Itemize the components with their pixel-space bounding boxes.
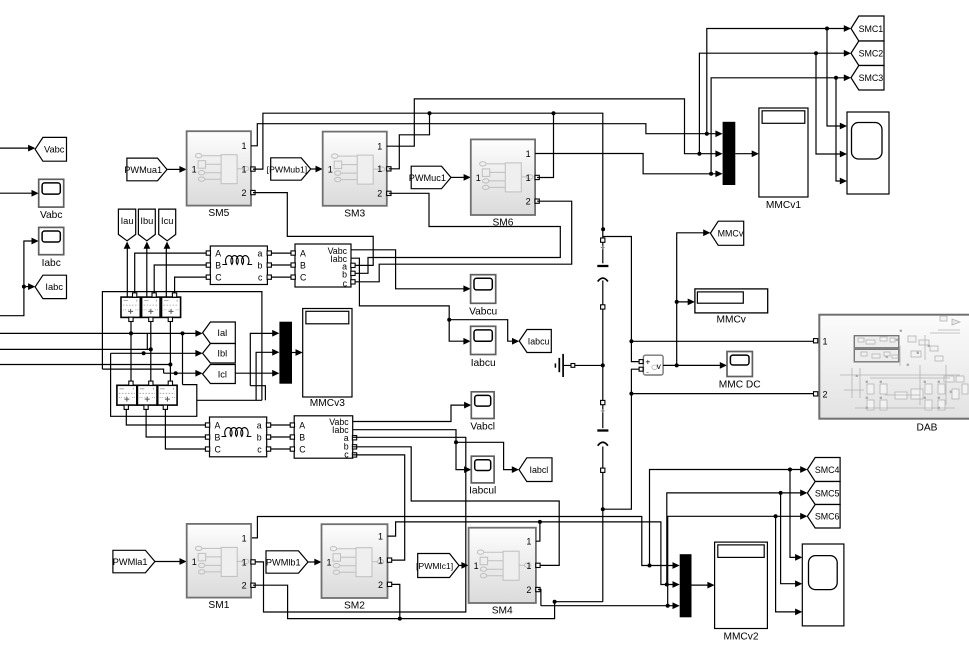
from tag PWMlc1 — [418, 554, 459, 578]
svg-text:2: 2 — [241, 188, 246, 198]
wire battery B measurement to Ibu tag — [146, 248, 148, 297]
scope MMCv3 — [303, 309, 352, 398]
svg-text:+: + — [645, 356, 650, 366]
wire branch to goto tag Iabcu — [449, 320, 513, 342]
svg-text:Ibl: Ibl — [217, 349, 227, 359]
wire VI b lower to SM4 mid port — [353, 447, 560, 566]
DAB internal circuitry (decorative) — [840, 316, 968, 410]
svg-text:MMCv2: MMCv2 — [723, 632, 758, 643]
wire tap to SMC2 — [699, 53, 844, 154]
junction bus bottom — [601, 507, 605, 511]
wire phase-c line to mux MMCv3 in3 — [235, 372, 273, 374]
wire SM1 out1 to mux MMCv2 in1 — [251, 517, 673, 566]
scope Vabcl — [471, 392, 494, 419]
wire branch into Iabc tag — [24, 286, 29, 288]
svg-text:c: c — [343, 278, 348, 288]
svg-text:1: 1 — [476, 173, 481, 183]
goto tag SMC4 — [807, 458, 840, 482]
wire from left edge to scope Iabc and Iabc tag — [0, 241, 32, 316]
subsystem SM5 — [187, 131, 251, 205]
svg-text:Vabcl: Vabcl — [470, 422, 495, 433]
svg-text:Ial: Ial — [217, 328, 227, 338]
wire SM2 out2 joins return line — [392, 584, 400, 618]
svg-text:DAB: DAB — [917, 423, 938, 434]
wire RLC a to VI A lower — [271, 424, 291, 426]
wire RLC c to VI C — [272, 276, 291, 278]
svg-text:PWMua1: PWMua1 — [124, 165, 162, 175]
DC source 1 (battery symbol) on bus — [597, 265, 608, 267]
svg-text:C: C — [215, 273, 222, 283]
port on DC bus — [601, 400, 605, 404]
scope Iabcul — [471, 456, 494, 483]
wire SM5 out2 to VI port a — [253, 193, 373, 266]
wire leg C between battery rows — [169, 322, 171, 382]
junction scope feed on SMC6 wire — [774, 514, 778, 518]
junction leg A midpoint — [129, 331, 133, 335]
wire into scope Vabc — [0, 192, 32, 194]
goto tag SMC1 — [851, 16, 884, 41]
wire SM5 out1 mid to DC bus — [253, 113, 603, 238]
svg-text:SM4: SM4 — [492, 606, 513, 617]
wire PWMub1 to SM3 — [311, 168, 317, 170]
wire SM2 out1 to SM4 top port — [388, 522, 540, 541]
goto tag Ibl — [203, 344, 236, 364]
three-phase V-I measurement (lower) — [294, 416, 353, 458]
svg-text:MMCv3: MMCv3 — [310, 398, 345, 409]
svg-text:1: 1 — [242, 533, 247, 543]
wire collector line — [197, 399, 262, 401]
svg-text:2: 2 — [377, 189, 382, 199]
wire Ial feed from left — [0, 332, 196, 334]
three-phase series RLC branch (upper arm) — [210, 246, 267, 285]
svg-text:Iabcu: Iabcu — [528, 336, 550, 346]
wire VI Iabc lower to scope Iabcul — [353, 430, 465, 470]
wire link2 — [102, 369, 163, 373]
wire VI c lower to SM2 mid port — [353, 455, 405, 560]
svg-text:2: 2 — [378, 580, 383, 590]
battery block arm A upper — [121, 297, 140, 317]
wire RLC c to VI C lower — [271, 448, 291, 450]
svg-text:1: 1 — [378, 556, 383, 566]
svg-text:1: 1 — [192, 165, 197, 175]
goto tag Ibu — [138, 209, 155, 241]
svg-text:C: C — [299, 444, 306, 454]
scope (3-input upper right) — [847, 112, 889, 194]
svg-text:SM5: SM5 — [208, 208, 229, 219]
wire v measurement to MMC DC scope — [663, 364, 720, 366]
wire DAB input 2 line — [631, 393, 813, 395]
svg-text:MMCv: MMCv — [716, 315, 746, 326]
svg-text:MMC DC: MMC DC — [719, 380, 761, 391]
svg-text:Icu: Icu — [161, 216, 173, 226]
junction SM6 on DC bus line — [552, 111, 556, 115]
ground symbol — [564, 364, 603, 366]
mux for MMCv1 — [723, 122, 736, 185]
voltage measurement block — [643, 355, 663, 375]
wire RLC b to VI B lower — [271, 436, 291, 438]
goto tag SMC2 — [851, 41, 884, 66]
junction SMC4 tap — [648, 564, 652, 568]
wire lower battery B to RLC B — [146, 409, 206, 437]
wire leg A between battery rows — [130, 322, 132, 382]
wire SMC5 line to lower scope input 2 — [781, 493, 796, 584]
wire SM3 out1 top to mux MMCv1 in2 — [387, 99, 716, 154]
junction SM3 on DC bus line — [428, 111, 432, 115]
from tag PWMlb1 — [266, 551, 308, 573]
svg-text:1: 1 — [241, 165, 246, 175]
junction phase-a tap — [181, 331, 185, 335]
wire SM3 out2 to VI port b — [355, 193, 560, 273]
wire SMC2 line down to scope input 2 — [816, 53, 841, 154]
wire up to MMCv display — [677, 302, 688, 366]
goto tag MMCv — [710, 221, 743, 245]
wire battery A measurement to Iau tag — [126, 248, 128, 297]
svg-text:c: c — [344, 449, 349, 459]
DC source 2 (battery symbol) on bus — [597, 429, 608, 431]
wire mux to MMCv1 scope — [735, 153, 752, 155]
display MMCv — [695, 289, 768, 313]
svg-text:SMC5: SMC5 — [815, 488, 840, 498]
wire tap to SMC5 — [667, 493, 801, 585]
wire tap to SMC6 — [668, 516, 801, 605]
scope MMCv1 — [759, 108, 808, 197]
wire SM5 out1 top to mux MMCv1 in1 — [251, 124, 716, 146]
svg-text:2: 2 — [526, 197, 531, 207]
wire bus segment — [602, 242, 604, 263]
junction display tap — [675, 363, 679, 367]
svg-text:A: A — [215, 249, 221, 259]
subsystem DAB — [819, 315, 969, 419]
goto tag Iabc — [35, 275, 66, 298]
svg-text:MMCv1: MMCv1 — [766, 200, 801, 211]
svg-text:-: - — [646, 366, 649, 376]
svg-text:1: 1 — [241, 141, 246, 151]
wire PWMlb1 to SM2 — [308, 561, 315, 563]
svg-text:1: 1 — [526, 561, 531, 571]
junction Iabcu feed — [447, 318, 451, 322]
wire SM2 out1 line to mux MMCv2 in2 — [540, 522, 673, 585]
goto tag Vabc — [35, 137, 66, 161]
svg-text:SMC4: SMC4 — [815, 465, 840, 475]
svg-text:SMC1: SMC1 — [859, 24, 884, 34]
three-phase V-I measurement (upper) — [295, 244, 351, 287]
goto tag SMC5 — [807, 482, 840, 505]
wire bus segment — [602, 281, 604, 305]
junction SMC6 tap — [666, 604, 670, 608]
svg-text:c: c — [257, 444, 262, 454]
svg-text:1: 1 — [474, 561, 479, 571]
port on DC bus — [601, 468, 605, 472]
scope Vabc — [39, 179, 64, 207]
svg-text:1: 1 — [526, 149, 531, 159]
battery block arm B lower — [137, 385, 157, 405]
subsystem SM3 — [323, 132, 387, 206]
goto tag Icl — [203, 365, 236, 384]
svg-text:2: 2 — [526, 585, 531, 595]
svg-text:1: 1 — [377, 142, 382, 152]
wire tap to SMC4 — [650, 470, 801, 566]
goto tag Ial — [203, 322, 236, 344]
svg-text:[PWMlc1]: [PWMlc1] — [416, 561, 453, 571]
goto tag Iabcl — [519, 458, 552, 482]
wire bus segment — [602, 447, 604, 468]
wire PWMuc1 to SM6 — [451, 176, 464, 178]
wire PWMua1 to SM5 — [167, 168, 180, 170]
svg-text:SM3: SM3 — [344, 208, 365, 219]
junction SMC5 tap — [665, 583, 669, 587]
wire Ibl feed — [111, 352, 197, 354]
svg-text:1: 1 — [526, 173, 531, 183]
svg-text:MMCv: MMCv — [718, 229, 744, 239]
junction on Iabc feed — [22, 285, 26, 289]
wire tap to SMC3 — [711, 78, 844, 174]
junction SMC1 tap — [705, 132, 709, 136]
wire SMC1 line down to scope input 1 — [827, 29, 841, 127]
subsystem SM4 — [469, 528, 536, 603]
svg-text:PWMuc1: PWMuc1 — [409, 173, 446, 183]
svg-text:A: A — [215, 420, 221, 430]
svg-text:Icl: Icl — [218, 369, 227, 379]
scope MMCv2 — [715, 542, 768, 628]
wire DC+ tap to right — [603, 237, 639, 362]
junction SM4 top branch — [538, 520, 542, 524]
wire VI a lower to SM1 mid port — [255, 437, 466, 612]
svg-text:c: c — [258, 273, 263, 283]
wire into Vabc tag — [0, 147, 29, 149]
svg-text:a: a — [257, 249, 262, 259]
subsystem SM6 — [471, 139, 535, 215]
svg-text:Vabcu: Vabcu — [469, 307, 497, 318]
wire SM4 out2 to mux MMCv2 in3 — [538, 590, 541, 606]
svg-text:1: 1 — [823, 336, 828, 346]
wire SM6 out2 to VI port c — [355, 201, 571, 282]
junction ground on bus — [601, 363, 605, 367]
junction MMCv tag tap — [675, 300, 679, 304]
wire up to MMCv tag — [677, 233, 704, 302]
svg-text:SM1: SM1 — [208, 600, 229, 611]
junction SMC3 tap — [709, 172, 713, 176]
wire mux MMCv2 in3 line — [541, 605, 673, 607]
wire VI Vabc lower to scope Vabcl — [353, 405, 465, 421]
battery block arm C lower — [158, 385, 177, 405]
goto tag Iau — [118, 209, 135, 241]
svg-text:2: 2 — [242, 581, 247, 591]
wire RLC a to VI A — [272, 252, 291, 254]
scope Iabc — [39, 227, 64, 254]
wire bus segment bottom — [602, 472, 604, 601]
junction DAB2 tap — [629, 392, 633, 396]
svg-text:C: C — [300, 273, 307, 283]
wire DC- from voltage measurement to bus — [603, 369, 639, 509]
port on DC bus — [601, 305, 605, 309]
wire RLC b to VI B — [272, 264, 291, 266]
svg-text:Iau: Iau — [121, 216, 134, 226]
svg-text:SMC3: SMC3 — [859, 73, 884, 83]
wire feed to mux MMCv3 in2 — [256, 352, 273, 400]
junction scope feed on SMC4 wire — [788, 468, 792, 472]
svg-text:b: b — [257, 432, 262, 442]
subsystem SM2 — [322, 524, 388, 598]
wire SMC4 line to lower scope input 1 — [790, 470, 796, 558]
svg-text:A: A — [300, 249, 306, 259]
wire mux to MMCv3 — [292, 352, 296, 354]
junction bus bottom link — [553, 600, 557, 604]
svg-text:Iabc: Iabc — [42, 258, 61, 269]
wire battery C top port to RLC input C — [175, 277, 206, 293]
wire PWMlc1 to SM4 — [459, 564, 462, 566]
svg-text:B: B — [215, 260, 221, 270]
battery block arm A lower — [117, 385, 137, 405]
wire rail2 down to collector — [111, 353, 197, 416]
wire SM6 out1 top to mux MMCv1 in3 — [535, 154, 716, 174]
wire phase C line from left — [0, 364, 170, 366]
mux for MMCv2 — [680, 554, 692, 617]
svg-text:PWMlb1: PWMlb1 — [266, 557, 301, 567]
goto tag SMC3 — [851, 66, 884, 91]
junction on Icl feed — [174, 371, 178, 375]
wire DAB input 1 line — [631, 340, 813, 342]
wire leg B between battery rows — [150, 322, 152, 382]
svg-text:SMC6: SMC6 — [815, 512, 840, 522]
wire VI Iabc to scope Iabcu — [351, 258, 464, 341]
junction leg B midpoint — [149, 347, 153, 351]
wire branch to goto tag Iabcl — [456, 442, 513, 469]
wire phase-a tap — [182, 333, 184, 384]
svg-text:1: 1 — [377, 164, 382, 174]
wire link — [146, 333, 148, 349]
svg-text:1: 1 — [328, 164, 333, 174]
svg-text:C: C — [215, 444, 222, 454]
from tag PWMua1 — [127, 158, 167, 181]
wire lower battery A to RLC A — [126, 409, 206, 425]
port on DC bus — [601, 238, 605, 242]
svg-text:1: 1 — [526, 537, 531, 547]
svg-text:b: b — [257, 260, 262, 270]
wire bus segment with ground junction and DC+ tap — [602, 309, 604, 400]
wire SM6 out1 mid joins DC bus line — [537, 113, 553, 177]
junction scope feed on SMC3 wire — [834, 76, 838, 80]
svg-text:1: 1 — [326, 557, 331, 567]
scope MMC DC — [727, 352, 752, 377]
svg-text:B: B — [299, 432, 305, 442]
wire SM1 out2 to DC bus bottom — [253, 585, 603, 618]
svg-text:1: 1 — [242, 557, 247, 567]
svg-text:SMC2: SMC2 — [859, 49, 884, 59]
svg-text:A: A — [299, 420, 305, 430]
wire VI Vabc to scope Vabcu — [351, 250, 464, 289]
battery block arm B upper — [142, 297, 161, 317]
wire PWMla1 to SM1 — [155, 561, 180, 563]
svg-text:Iabcu: Iabcu — [471, 358, 496, 369]
svg-text:Iabcl: Iabcl — [530, 465, 549, 475]
wire mux to MMCv2 — [692, 584, 709, 586]
wire zigzag to mux MMCv3 in1 — [250, 333, 273, 400]
wire upper bus rail — [102, 292, 262, 401]
scope Vabcu — [471, 275, 496, 304]
from tag PWMla1 — [113, 550, 155, 573]
wire tap to SMC1 — [707, 29, 845, 134]
wire battery C measurement to Icu tag — [165, 248, 167, 297]
svg-text:[PWMub1]: [PWMub1] — [267, 164, 308, 174]
junction Iabcl feed — [454, 440, 458, 444]
from tag PWMuc1 — [411, 166, 451, 189]
svg-text:PWMla1: PWMla1 — [113, 557, 148, 567]
svg-text:1: 1 — [378, 532, 383, 542]
junction scope feed on SMC2 wire — [814, 51, 818, 55]
wire bus segment — [602, 405, 604, 429]
mux for MMCv3 — [279, 322, 292, 384]
three-phase series RLC branch (lower arm) — [210, 417, 267, 457]
svg-text:1: 1 — [192, 557, 197, 567]
wire phase B line from left — [0, 348, 151, 350]
junction SM2 return — [398, 617, 402, 621]
svg-text:a: a — [257, 420, 262, 430]
from tag PWMub1 — [271, 158, 311, 180]
junction DAB1 tap — [629, 339, 633, 343]
goto tag Iabcu — [519, 330, 551, 353]
battery block arm C upper — [162, 297, 181, 317]
svg-text:B: B — [215, 432, 221, 442]
svg-text:Iabcul: Iabcul — [469, 486, 496, 497]
wire battery B top port to RLC input B — [154, 265, 206, 293]
svg-text:Ibu: Ibu — [140, 216, 153, 226]
subsystem SM1 — [187, 524, 251, 598]
wire Icl feed — [164, 372, 197, 374]
svg-text:B: B — [300, 260, 306, 270]
wire battery A top port to RLC input A — [135, 253, 206, 293]
goto tag SMC6 — [807, 505, 840, 529]
svg-text:2: 2 — [823, 389, 828, 399]
wire SM3 out1 mid joins DC bus line — [389, 113, 430, 169]
svg-text:SM2: SM2 — [344, 601, 365, 612]
junction DC bus top tap — [601, 227, 605, 231]
svg-text:Vabc: Vabc — [44, 145, 65, 155]
scope (3-input lower right) — [802, 544, 844, 626]
junction scope feed on SMC1 wire — [825, 27, 829, 31]
junction scope feed on SMC5 wire — [779, 491, 783, 495]
wire lower battery C to RLC C — [165, 409, 206, 449]
svg-text:v: v — [657, 361, 662, 371]
svg-text:Iabc: Iabc — [45, 282, 63, 292]
junction leg C midpoint — [168, 363, 172, 367]
wire SMC6 line to lower scope input 3 — [776, 516, 796, 612]
junction SMC2 tap — [697, 152, 701, 156]
goto tag Icu — [159, 209, 176, 241]
junction on Ibl feed — [142, 351, 146, 355]
scope Iabcu — [471, 326, 496, 354]
svg-text:Vabc: Vabc — [40, 210, 62, 221]
wire SMC3 line down to scope input 3 — [836, 78, 841, 181]
